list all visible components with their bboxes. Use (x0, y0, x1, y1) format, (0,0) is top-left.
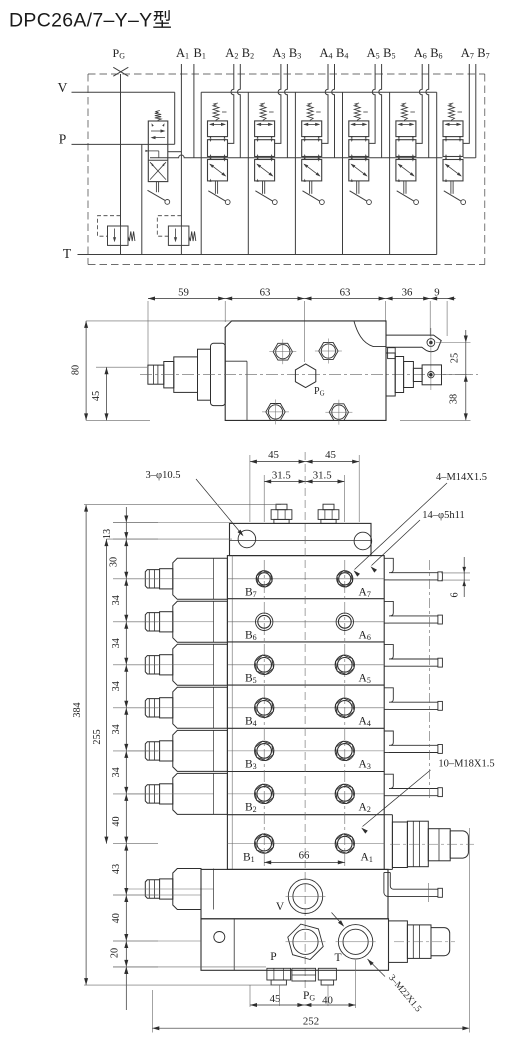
svg-text:9: 9 (434, 286, 439, 298)
dim 255 (105, 539, 107, 844)
wire series supply line (150, 155, 443, 158)
port column centreline A (344, 560, 346, 866)
side view adjustment screw hex nut (148, 365, 164, 384)
port V (288, 879, 322, 913)
spool pin rod section 3 (384, 731, 393, 745)
side view body outline (225, 321, 386, 421)
port A1 (335, 834, 354, 853)
side view lever arm hole (427, 339, 435, 347)
valve V2 position cells (208, 121, 228, 137)
port B1 (255, 834, 274, 853)
side view internal cover lines (246, 361, 248, 420)
flange hole phi10.5 right (354, 532, 372, 550)
side view screw step (164, 362, 174, 388)
valve V3 position cells (255, 121, 275, 137)
spool pin rod section 7 (384, 558, 393, 572)
side view spool stepped end (386, 353, 395, 396)
bottom view mounting flange (230, 523, 372, 555)
side view bolt top-right (321, 344, 335, 358)
relief valve RV2 flow arrow (175, 229, 177, 241)
operator housing section 4 (173, 687, 228, 728)
wire V line (72, 91, 175, 93)
dim 66 between B1 A1 (264, 861, 345, 863)
valve V7 lever (450, 181, 452, 194)
valve V1 unloader section body (148, 121, 168, 182)
relief valve RV1 flow arrow (114, 229, 116, 241)
side view PG hex plug (295, 364, 315, 388)
side view dim 25 38 (465, 330, 467, 420)
bottom view PT block (201, 919, 389, 971)
wire B6 line (426, 64, 429, 158)
dim 252 (152, 1027, 469, 1029)
valve V1 lever (155, 182, 157, 193)
svg-text:43: 43 (111, 864, 122, 874)
wire section divider (247, 92, 249, 254)
port A5 (335, 655, 354, 674)
svg-text:63: 63 (260, 286, 271, 298)
PG plug bottom (292, 968, 316, 981)
PT block hole (214, 932, 225, 943)
relief valve RV1 pilot line (98, 216, 121, 237)
svg-text:40: 40 (322, 995, 333, 1007)
valve V2 spring (213, 103, 219, 121)
svg-text:40: 40 (111, 913, 122, 923)
section 1 bent pin rod (384, 873, 438, 897)
port A7 (337, 571, 353, 587)
wire section divider (342, 92, 344, 254)
svg-text:45: 45 (325, 449, 336, 461)
spool pin rod section 2 (384, 774, 393, 788)
valve V7 port marks (445, 136, 447, 139)
valve V1 pilot L-line (146, 150, 159, 152)
svg-text:34: 34 (111, 595, 122, 605)
plug X on PG port (113, 67, 128, 76)
port A6 (336, 613, 353, 630)
operator housing section 7 (173, 558, 228, 599)
svg-text:25: 25 (450, 353, 461, 363)
svg-text:30: 30 (109, 557, 120, 567)
valve V2 port marks (209, 136, 211, 139)
bottom view V block (201, 869, 388, 918)
flange stud right (323, 504, 334, 510)
wire B3 line (285, 64, 288, 158)
valve V1 spring (155, 111, 161, 122)
wire A2 line (228, 64, 234, 143)
port A3 (335, 741, 354, 760)
svg-text:P: P (270, 951, 276, 963)
port B7 (256, 571, 272, 587)
wire section divider (389, 92, 391, 254)
operator housing section 3 (173, 730, 228, 771)
valve V4 port marks (304, 136, 306, 139)
bottom stud left (267, 968, 291, 980)
valve V3 crossed flow arrow (257, 164, 273, 176)
port P (288, 924, 323, 959)
side view spool rod (413, 368, 422, 381)
valve V5 position cells (349, 121, 369, 137)
svg-text:63: 63 (340, 286, 351, 298)
flange stud left (276, 504, 287, 510)
port B6 (256, 613, 273, 630)
valve V1 top cell flow arrows (151, 130, 164, 132)
wire PG vertical line (120, 74, 122, 226)
side view lever pivot boss (388, 348, 396, 359)
valve V4 lever (309, 181, 311, 194)
wire A7 line (463, 64, 469, 143)
left dim chain line (125, 507, 127, 1010)
bottom view dim 45 45 (250, 461, 359, 463)
wire section divider (200, 92, 202, 254)
wire section divider (436, 92, 438, 254)
svg-text:34: 34 (111, 681, 122, 691)
svg-text:14–φ5h11: 14–φ5h11 (422, 510, 464, 521)
side view dim 80 (85, 321, 87, 421)
port column centreline B (263, 560, 265, 866)
svg-text:45: 45 (91, 391, 102, 401)
wire A1 line (180, 64, 182, 226)
main relief valve cartridge right (392, 822, 407, 868)
side view dim 45 (106, 367, 108, 420)
svg-text:36: 36 (402, 286, 413, 298)
svg-text:3–φ10.5: 3–φ10.5 (146, 470, 181, 481)
valve V5 port marks (351, 136, 353, 139)
spool pin rod section 6 (384, 601, 393, 616)
valve V4 position cells (302, 121, 322, 137)
wire P supply rail (201, 91, 437, 93)
T relief cartridge right (389, 921, 408, 963)
operator housing section 5 (173, 644, 228, 685)
valve V2 lever (214, 181, 216, 194)
port A2 (335, 784, 354, 803)
port T (338, 925, 372, 959)
valve V5 neutral double arrow (351, 123, 366, 125)
pin rod centreline vertical (429, 560, 431, 800)
relief valve RV2 spring (189, 231, 196, 241)
svg-text:V: V (276, 901, 285, 913)
side view end cover (211, 343, 226, 405)
svg-text:31.5: 31.5 (272, 469, 291, 481)
relief valve RV1 spring (128, 231, 135, 241)
svg-text:34: 34 (111, 638, 122, 648)
left dim chain arrowheads (124, 516, 128, 523)
svg-text:20: 20 (110, 948, 121, 958)
wire B5 line (379, 64, 382, 158)
dim 6 rod diameter (441, 572, 470, 574)
bottom dims 45 40 (250, 1004, 356, 1006)
side view bolt top-left (276, 345, 290, 359)
svg-text:DPC26A/7–Y–Y型: DPC26A/7–Y–Y型 (9, 10, 172, 32)
spool pin rod section 4 (384, 688, 393, 702)
wire T line (78, 254, 437, 256)
side view body casting step (354, 321, 386, 346)
valve V6 lever (403, 181, 405, 194)
wire B2 line (238, 64, 241, 158)
operator housing section 2 (173, 773, 228, 814)
bottom stud right (318, 968, 336, 980)
flange hole phi10.5 left (238, 530, 256, 548)
side view screw flange (198, 349, 211, 400)
wire B4 line (332, 64, 335, 158)
svg-text:384: 384 (72, 702, 83, 717)
side view bolt bottom-left (268, 405, 282, 419)
relief valve RV2 body (168, 226, 189, 245)
valve V2 neutral double arrow (210, 123, 225, 125)
port B3 (255, 741, 274, 760)
port A4 (335, 698, 354, 717)
valve V7 crossed flow arrow (446, 164, 462, 176)
valve V3 port marks (257, 136, 259, 139)
svg-text:V: V (58, 80, 68, 95)
operator housing section 1 (173, 869, 201, 910)
valve V6 crossed flow arrow (398, 164, 414, 176)
svg-text:34: 34 (111, 724, 122, 734)
wire A5 line (369, 64, 375, 143)
valve V6 spring (401, 103, 407, 121)
wire A6 line (416, 64, 422, 143)
valve V2 crossed flow arrow (210, 164, 226, 176)
svg-text:13: 13 (102, 529, 113, 539)
left dim chain extension lines (113, 522, 158, 524)
side view dimension row 59 63 63 36 9 (148, 298, 456, 300)
relief valve RV2 pilot line (157, 216, 181, 237)
svg-text:252: 252 (303, 1016, 319, 1028)
svg-text:255: 255 (92, 729, 103, 744)
relief cartridge centreline (390, 843, 474, 845)
svg-text:40: 40 (111, 816, 122, 826)
wire B1 line (193, 64, 195, 158)
svg-text:4–M14X1.5: 4–M14X1.5 (436, 472, 487, 483)
wire A1 to V1 connection (168, 151, 182, 153)
svg-text:6: 6 (450, 592, 461, 597)
svg-text:45: 45 (270, 993, 281, 1005)
wire P branch down to tank box (141, 144, 143, 254)
spool pin rod section 5 (384, 645, 393, 659)
svg-text:38: 38 (449, 394, 460, 404)
valve V4 neutral double arrow (304, 123, 319, 125)
relief valve RV1 body (108, 226, 129, 245)
side view clevis hole (428, 372, 434, 378)
valve V3 lever (262, 181, 264, 194)
valve V7 neutral double arrow (446, 123, 461, 125)
bottom view row centrelines (227, 578, 384, 580)
valve V6 neutral double arrow (398, 123, 413, 125)
svg-text:P: P (59, 132, 67, 147)
central centreline (304, 452, 306, 988)
svg-text:66: 66 (299, 850, 310, 862)
operator housing section 6 (173, 601, 228, 642)
wire A4 line (322, 64, 328, 143)
svg-text:10–M18X1.5: 10–M18X1.5 (438, 759, 494, 770)
svg-text:59: 59 (178, 286, 189, 298)
port B2 (255, 784, 274, 803)
wire supply extension to B7 (463, 157, 476, 159)
bottom view section joint lines (227, 598, 384, 600)
valve V6 port marks (398, 136, 400, 139)
port B5 (255, 655, 274, 674)
port B4 (255, 698, 274, 717)
side view clevis block (422, 365, 441, 385)
dim 384 (85, 505, 87, 985)
valve V3 spring (260, 103, 266, 121)
svg-text:34: 34 (111, 767, 122, 777)
wire P line (72, 143, 149, 145)
svg-text:45: 45 (268, 449, 279, 461)
side view bolt bottom-right (332, 405, 346, 419)
bottom view body outline (227, 556, 384, 870)
valve V3 neutral double arrow (257, 123, 272, 125)
wire A3 line (275, 64, 281, 143)
svg-text:T: T (63, 246, 72, 261)
valve V7 position cells (443, 121, 463, 137)
side view lever pivot axis (430, 328, 432, 390)
side view extension lines (147, 301, 149, 367)
wire section divider (294, 92, 296, 254)
valve V5 lever (356, 181, 358, 194)
T relief centreline (394, 941, 455, 943)
svg-text:T: T (334, 952, 341, 964)
valve V5 crossed flow arrow (351, 164, 367, 176)
svg-text:31.5: 31.5 (313, 469, 332, 481)
wire B7 line (475, 64, 477, 158)
schematic dashed enclosure border (88, 73, 485, 75)
bottom view dim 31.5 31.5 (264, 481, 344, 483)
side view centre axis (140, 374, 478, 376)
svg-text:80: 80 (71, 365, 82, 375)
valve V1 closed position cross (150, 162, 166, 179)
valve V6 position cells (396, 121, 416, 137)
valve V1 port marks top (152, 123, 154, 126)
valve V4 spring (307, 103, 313, 121)
valve V7 spring (449, 103, 455, 121)
label 3-M22X1.5 with leader (332, 913, 344, 926)
side view lever arm (386, 335, 441, 352)
side view screw cylinder (174, 357, 198, 393)
valve V5 spring (354, 103, 360, 121)
section 1 block right extension (391, 815, 393, 870)
valve V4 crossed flow arrow (304, 164, 320, 176)
